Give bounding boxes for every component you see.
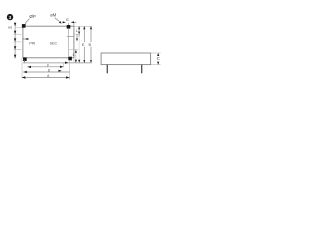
svg-text:øM: øM — [50, 12, 57, 17]
dimension A — [22, 74, 70, 79]
svg-text:E: E — [82, 43, 85, 47]
dimension B (vertical line) — [89, 26, 93, 63]
side view body — [101, 53, 151, 65]
svg-text:H: H — [8, 25, 11, 30]
extension verticals below top view — [21, 58, 23, 78]
bottom extension line — [23, 62, 92, 64]
svg-text:L: L — [73, 53, 75, 57]
pin pad top-left — [22, 24, 26, 28]
dimension L (bottom right) — [69, 50, 78, 61]
SEC pin column line — [68, 29, 70, 57]
pin column down arrows to extension — [23, 60, 25, 63]
figure marker circle 3 — [7, 14, 13, 21]
svg-text:ØP: ØP — [29, 14, 36, 19]
dimension D — [23, 69, 69, 74]
dimension C (side view height) — [151, 53, 161, 65]
dimension E (vertical line) — [82, 26, 85, 63]
svg-text:L: L — [76, 29, 78, 33]
pin pad bottom-left — [23, 57, 27, 61]
right top extension line — [74, 25, 92, 27]
label øM with leader — [50, 12, 62, 23]
inner row extension right + down arrow — [67, 34, 80, 41]
svg-text:G: G — [66, 17, 69, 22]
left pin-pitch chain H — [8, 23, 22, 59]
svg-text:B: B — [89, 43, 92, 47]
dimension F — [27, 63, 63, 68]
pin pad bottom-right — [68, 57, 72, 61]
label ØP with leader to top-left pad — [24, 14, 36, 25]
svg-text:C: C — [157, 56, 160, 61]
svg-text:3: 3 — [9, 15, 12, 21]
arrowhead on extension line — [65, 62, 68, 64]
pin pad top-right — [67, 25, 71, 29]
svg-text:PRI: PRI — [29, 40, 35, 45]
background — [0, 0, 167, 100]
inner arrow left (row pointer) — [22, 38, 29, 40]
svg-text:SEC: SEC — [50, 40, 58, 45]
side view pin 1 — [106, 65, 108, 74]
side view pin 2 — [141, 65, 143, 74]
extra arrow above D line — [58, 70, 61, 72]
dimension G (top right) — [62, 17, 76, 27]
dimension L (top right) — [76, 26, 80, 36]
top view body outline — [23, 26, 74, 58]
